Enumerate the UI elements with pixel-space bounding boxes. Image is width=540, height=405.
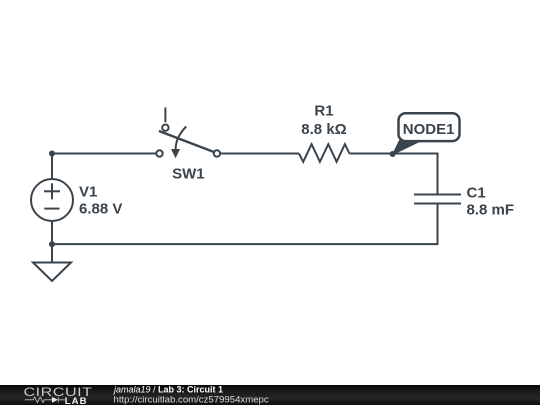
switch SW1 top stub bbox=[164, 108, 166, 123]
wire: bottom rail bbox=[52, 243, 438, 245]
wire: resistor to top-right corner bbox=[349, 154, 437, 195]
wire: top-left from V1 junction to switch left terminal bbox=[52, 153, 156, 155]
node junction dot left-top bbox=[49, 151, 55, 157]
wire: switch right terminal to resistor bbox=[221, 153, 299, 155]
svg-text:8.8 kΩ: 8.8 kΩ bbox=[301, 121, 346, 138]
ground bbox=[33, 263, 71, 282]
svg-text:6.88 V: 6.88 V bbox=[79, 201, 122, 218]
svg-text:V1: V1 bbox=[79, 184, 97, 201]
node junction dot left-bottom bbox=[49, 241, 55, 247]
capacitor C1 bbox=[414, 195, 461, 204]
logo resistor squiggle and diode bbox=[25, 397, 65, 403]
footer bar bbox=[0, 385, 540, 405]
svg-text:C1: C1 bbox=[467, 185, 486, 202]
node junction dot NODE1 bbox=[390, 151, 396, 157]
resistor R1 bbox=[299, 144, 349, 162]
svg-text:NODE1: NODE1 bbox=[403, 121, 455, 138]
wire: V1 bottom stub to ground bbox=[51, 221, 53, 262]
switch SW1 terminals bbox=[156, 125, 220, 157]
switch SW1 throw arrow bbox=[176, 127, 187, 150]
svg-text:SW1: SW1 bbox=[172, 166, 205, 183]
svg-text:R1: R1 bbox=[314, 103, 333, 120]
svg-text:http://circuitlab.com/cz579954: http://circuitlab.com/cz579954xmepc bbox=[114, 395, 269, 405]
svg-text:jamala19 / Lab 3: Circuit 1: jamala19 / Lab 3: Circuit 1 bbox=[113, 385, 223, 395]
NODE1 callout bubble bbox=[399, 113, 460, 141]
svg-text:LAB: LAB bbox=[65, 396, 88, 405]
NODE1 callout tail bbox=[393, 141, 422, 155]
svg-text:8.8 mF: 8.8 mF bbox=[467, 202, 515, 219]
wire: capacitor bottom to bottom rail bbox=[437, 204, 439, 246]
voltage source V1 bbox=[31, 179, 73, 221]
switch SW1 blade bbox=[159, 131, 213, 152]
wire: V1 top stub bbox=[51, 154, 53, 180]
logo diode triangle bbox=[52, 397, 58, 403]
